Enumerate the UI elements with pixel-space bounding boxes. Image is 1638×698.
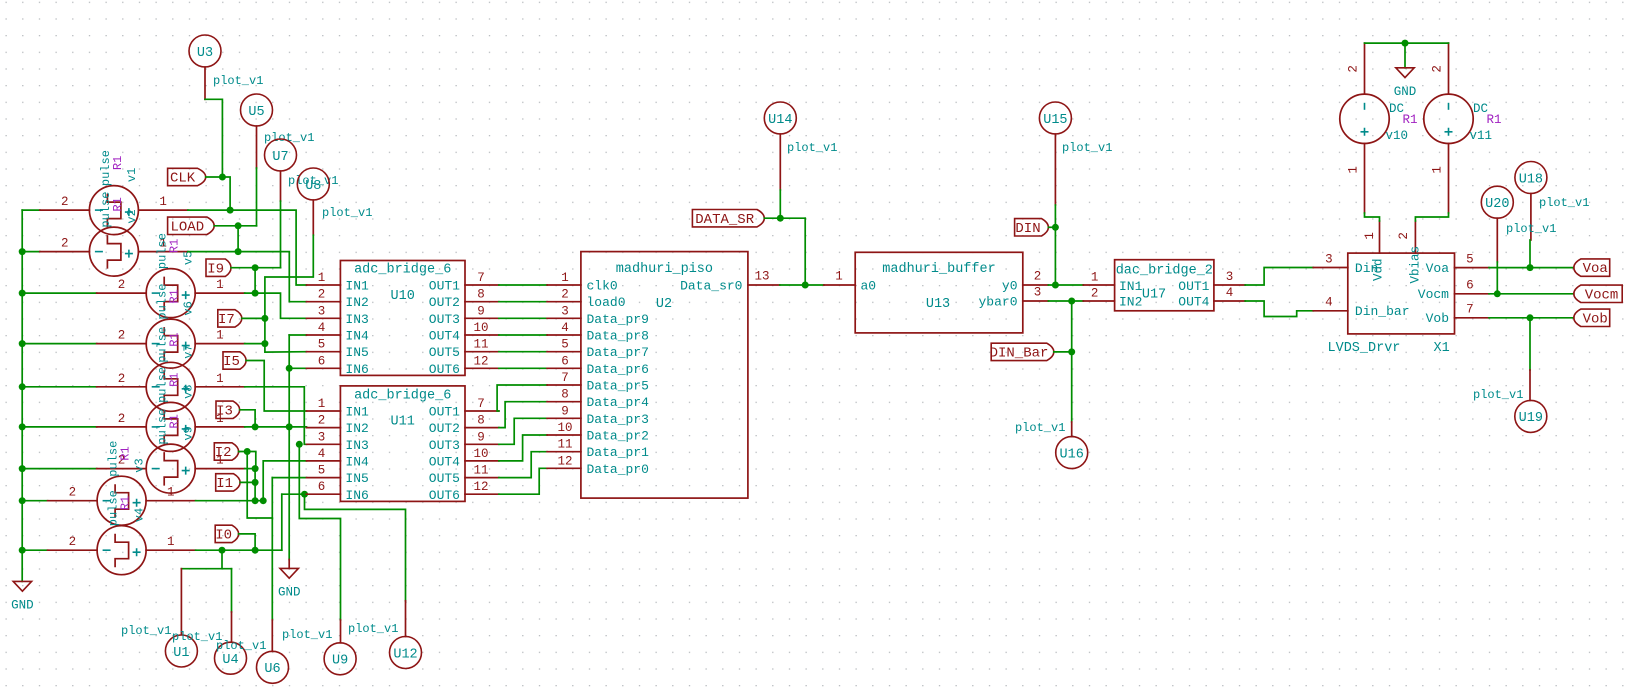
svg-text:v1: v1 (125, 168, 139, 182)
wire v11 bottom pin (1448, 144, 1450, 214)
svg-text:IN5: IN5 (345, 471, 368, 486)
pin 2 of v4 (48, 549, 98, 551)
wire U11 IN6 row (282, 493, 307, 495)
wire ybar0 to dac IN2 (1048, 300, 1083, 302)
svg-text:Data_pr2: Data_pr2 (587, 429, 649, 444)
wire U10 OUT to piso (499, 301, 547, 303)
pin IN5 of U11 (307, 477, 341, 479)
probe U14 (764, 102, 796, 134)
wire v10 bottom pin (1364, 144, 1366, 214)
svg-text:U10: U10 (391, 289, 415, 304)
pin OUT5 of U10 (465, 351, 499, 353)
pin OUT3 of U10 (465, 317, 499, 319)
pin 1 of v3 (146, 500, 196, 502)
svg-text:DIN_Bar: DIN_Bar (990, 346, 1049, 362)
dc source v10 (1340, 94, 1389, 143)
pin Vdd of X1 (1379, 221, 1381, 253)
wire U15 stub (1054, 134, 1056, 205)
svg-text:R1: R1 (111, 197, 125, 211)
wire ybar0 down to DIN_Bar (1071, 301, 1073, 352)
junction row v2 (235, 248, 242, 255)
pin Din_bar of X1 (1313, 310, 1348, 312)
wire U11 IN5 row (272, 477, 306, 479)
wire I3 branch (240, 410, 255, 427)
svg-text:IN1: IN1 (1119, 279, 1143, 294)
svg-text:U20: U20 (1485, 197, 1509, 212)
wire U12 feed (305, 494, 406, 601)
wire U11 OUT staircase (497, 385, 547, 411)
svg-text:6: 6 (318, 354, 326, 368)
pin Data_pr9 of U2 (547, 317, 581, 319)
junction row v4 (252, 497, 259, 504)
svg-text:2: 2 (118, 412, 126, 426)
pin 1 of v5 (195, 292, 245, 294)
junction I3 row v9 (252, 423, 259, 430)
svg-text:2: 2 (118, 278, 126, 292)
svg-text:1: 1 (159, 195, 167, 209)
wire row v6 (245, 343, 265, 345)
global label I0 (215, 525, 238, 542)
junction CLK (219, 174, 226, 181)
wire I1 row (240, 481, 255, 483)
svg-text:OUT6: OUT6 (429, 488, 460, 503)
junction I0 (252, 547, 259, 554)
svg-text:v9: v9 (182, 426, 196, 440)
svg-text:IN4: IN4 (345, 454, 369, 469)
svg-text:7: 7 (477, 397, 485, 411)
wire row v7 to U11 IN3 (245, 387, 307, 445)
junction DIN_Bar (1068, 348, 1075, 355)
svg-text:2: 2 (318, 414, 326, 428)
svg-text:OUT4: OUT4 (429, 454, 460, 469)
svg-text:v7: v7 (182, 344, 196, 358)
pin IN3 of U10 (307, 317, 341, 319)
svg-text:12: 12 (473, 480, 488, 494)
svg-text:3: 3 (318, 430, 326, 444)
wire to U16 (1071, 352, 1073, 422)
junction Data_sr0 (802, 282, 809, 289)
pin Vocm of X1 (1455, 293, 1490, 295)
pin 2 of v9 (97, 468, 147, 470)
wire U18 stub (1530, 194, 1532, 241)
pin 1 of v2 (138, 251, 188, 253)
pulse source v2 (89, 227, 138, 276)
wire U7 to I9 row (280, 171, 282, 201)
svg-text:Data_pr9: Data_pr9 (587, 312, 649, 327)
pin OUT5 of U11 (465, 477, 499, 479)
probe U1 (165, 635, 197, 667)
svg-text:1: 1 (1347, 166, 1361, 174)
svg-text:adc_bridge_6: adc_bridge_6 (354, 389, 451, 404)
svg-text:R1: R1 (168, 239, 182, 253)
wire U10 OUT to piso (499, 284, 547, 286)
svg-text:I1: I1 (216, 476, 233, 492)
svg-text:5: 5 (318, 464, 326, 478)
svg-text:Data_pr7: Data_pr7 (587, 345, 649, 360)
pulse source v8 (146, 402, 195, 451)
wire row v2 to U10 IN2 (188, 252, 307, 302)
svg-text:v8: v8 (182, 384, 196, 398)
junction v4 IN4 feed (260, 497, 267, 504)
svg-text:11: 11 (473, 464, 488, 478)
svg-text:R1: R1 (168, 289, 182, 303)
svg-text:IN3: IN3 (345, 312, 368, 327)
junction U14 (777, 215, 784, 222)
adc_bridge_6 U10 (340, 261, 465, 376)
svg-text:U9: U9 (332, 654, 348, 669)
svg-text:OUT5: OUT5 (429, 345, 460, 360)
wire top rail (1365, 42, 1449, 44)
svg-text:8: 8 (477, 414, 485, 428)
svg-text:plot_v1: plot_v1 (213, 74, 263, 88)
svg-text:U1: U1 (173, 646, 189, 661)
junction I2 (244, 448, 251, 455)
pin 1 of v6 (195, 343, 245, 345)
global label I2 (214, 443, 238, 460)
junction IN6 U12 feed (301, 491, 308, 498)
wire U1 stub (180, 569, 182, 635)
wire U10 OUT to piso (499, 351, 547, 353)
svg-text:IN6: IN6 (345, 488, 368, 503)
wire I7 row (242, 317, 265, 319)
wire U14 stub (779, 134, 781, 190)
svg-text:4: 4 (318, 321, 326, 335)
wire U5 to LOAD (256, 126, 258, 168)
pin OUT4 of U10 (465, 334, 499, 336)
pulse source v5 (146, 269, 195, 318)
global label I7 (218, 310, 242, 327)
pulse source v1 (89, 186, 138, 235)
probe U9 (324, 643, 356, 675)
pin Data_pr2 of U2 (547, 434, 581, 436)
svg-text:5: 5 (318, 338, 326, 352)
junction GND rail (1402, 40, 1409, 47)
svg-text:11: 11 (557, 438, 572, 452)
junction row v3 (252, 465, 259, 472)
svg-text:OUT1: OUT1 (429, 279, 460, 294)
pin Vbias of X1 (1414, 221, 1416, 253)
junction y0 (1052, 282, 1059, 289)
svg-text:Data_pr4: Data_pr4 (587, 395, 650, 410)
svg-text:R1: R1 (119, 496, 133, 510)
pulse source v7 (146, 362, 195, 411)
svg-text:Data_pr0: Data_pr0 (587, 462, 649, 477)
svg-text:Data_pr5: Data_pr5 (587, 379, 649, 394)
svg-text:3: 3 (561, 304, 569, 318)
pin 1 of v7 (195, 386, 245, 388)
svg-text:R1: R1 (168, 332, 182, 346)
svg-text:1: 1 (1363, 232, 1377, 240)
pin a0 of U13 (824, 284, 855, 286)
svg-text:CLK: CLK (170, 171, 196, 187)
wire row v1 to U10 IN1 (188, 210, 307, 285)
svg-text:IN2: IN2 (345, 421, 368, 436)
svg-text:1: 1 (216, 329, 224, 343)
svg-text:6: 6 (318, 480, 326, 494)
svg-text:I3: I3 (216, 403, 233, 419)
pin Data_sr0 of U2 (748, 284, 780, 286)
svg-text:IN5: IN5 (345, 345, 368, 360)
svg-text:9: 9 (477, 304, 485, 318)
svg-text:R1: R1 (1403, 113, 1418, 127)
svg-text:U2: U2 (656, 297, 672, 312)
junction IN6 U10 (286, 365, 293, 372)
svg-text:1: 1 (561, 271, 569, 285)
wire U11 OUT staircase (499, 468, 547, 494)
wire CLK junction to row v1 (206, 177, 230, 210)
junction ybar0 (1068, 298, 1075, 305)
svg-text:IN3: IN3 (345, 438, 368, 453)
svg-text:v2: v2 (125, 209, 139, 223)
pin OUT4 of U17 (1214, 300, 1245, 302)
wire row v4 to U11 IN4 (196, 500, 264, 502)
pin Data_pr6 of U2 (547, 367, 581, 369)
svg-text:OUT5: OUT5 (429, 471, 460, 486)
wire y0 to dac IN1 (1048, 284, 1083, 286)
svg-text:1: 1 (835, 270, 843, 284)
junction U1 U4 tap (219, 547, 226, 554)
svg-text:R1: R1 (168, 372, 182, 386)
svg-text:OUT1: OUT1 (1178, 279, 1209, 294)
svg-text:plot_v1: plot_v1 (216, 639, 266, 653)
wire (22, 468, 97, 470)
pin OUT6 of U11 (465, 493, 499, 495)
pin Data_pr7 of U2 (547, 351, 581, 353)
svg-text:8: 8 (477, 288, 485, 302)
probe U20 (1481, 186, 1513, 218)
probe U12 (390, 637, 422, 669)
svg-text:U13: U13 (926, 297, 950, 312)
svg-text:OUT3: OUT3 (429, 438, 460, 453)
svg-text:6: 6 (561, 354, 569, 368)
pin Vob of X1 (1455, 317, 1490, 319)
pin Data_pr5 of U2 (547, 384, 581, 386)
svg-text:IN4: IN4 (345, 329, 369, 344)
svg-text:2: 2 (1347, 65, 1361, 73)
pin OUT1 of U17 (1214, 284, 1245, 286)
wire U10 OUT to piso (499, 334, 547, 336)
svg-text:2: 2 (69, 535, 77, 549)
svg-text:plot_v1: plot_v1 (1473, 388, 1523, 402)
pin IN4 of U11 (307, 460, 341, 462)
wire U10 OUT to piso (499, 317, 547, 319)
svg-text:2: 2 (318, 288, 326, 302)
svg-text:OUT2: OUT2 (429, 421, 460, 436)
probe U4 (215, 642, 247, 674)
svg-text:10: 10 (473, 447, 488, 461)
wire left bus (21, 210, 23, 581)
svg-text:Data_pr3: Data_pr3 (587, 412, 649, 427)
pin 2 of v6 (97, 343, 147, 345)
wire DATA_SR (764, 217, 805, 219)
svg-text:plot_v1: plot_v1 (1062, 141, 1112, 155)
wire v11 top pin (1448, 43, 1450, 94)
madhuri_buffer U13 (855, 252, 1023, 333)
pin 1 of v4 (146, 549, 196, 551)
svg-text:plot_v1: plot_v1 (348, 622, 398, 636)
svg-text:plot_v1: plot_v1 (121, 624, 171, 638)
svg-text:Vdd: Vdd (1372, 258, 1386, 281)
svg-text:Data_pr1: Data_pr1 (587, 445, 650, 460)
ground middle (280, 568, 298, 578)
svg-text:OUT3: OUT3 (429, 312, 460, 327)
svg-text:I5: I5 (223, 354, 240, 370)
svg-text:1: 1 (318, 271, 326, 285)
svg-text:6: 6 (1466, 279, 1474, 293)
pin IN2 of U10 (307, 301, 341, 303)
wire (22, 426, 97, 428)
svg-text:4: 4 (561, 321, 569, 335)
svg-text:IN1: IN1 (345, 405, 369, 420)
global label I3 (216, 401, 240, 418)
pulse source v9 (146, 444, 195, 493)
svg-text:OUT4: OUT4 (429, 329, 460, 344)
pin Data_pr1 of U2 (547, 451, 581, 453)
svg-text:1: 1 (167, 535, 175, 549)
svg-text:a0: a0 (861, 279, 877, 294)
svg-text:I0: I0 (215, 528, 232, 544)
junction DIN (1052, 224, 1059, 231)
svg-text:2: 2 (1034, 270, 1042, 284)
svg-text:LOAD: LOAD (170, 219, 204, 235)
pin Data_pr4 of U2 (547, 401, 581, 403)
wire v10 top pin (1364, 43, 1366, 94)
svg-text:madhuri_piso: madhuri_piso (616, 262, 713, 277)
global label I5 (223, 352, 246, 369)
junction U19 (1527, 314, 1534, 321)
svg-text:ybar0: ybar0 (978, 295, 1017, 310)
wire U20 stub (1496, 218, 1498, 262)
pin 2 of v2 (40, 251, 90, 253)
wire I2 branch down (247, 452, 272, 519)
svg-text:IN6: IN6 (345, 362, 368, 377)
wire row v9 to U11 IN2 (245, 426, 307, 428)
svg-text:3: 3 (1226, 270, 1234, 284)
wire row v3 (245, 468, 256, 470)
pin IN5 of U10 (307, 351, 341, 353)
global label I1 (216, 474, 240, 491)
junction row v9 (286, 423, 293, 430)
svg-text:3: 3 (318, 304, 326, 318)
svg-text:1: 1 (1091, 271, 1099, 285)
wire IN6 drop to row v8 (281, 494, 283, 550)
pin OUT2 of U11 (465, 427, 499, 429)
svg-text:GND: GND (278, 585, 301, 599)
global label Vocm (1574, 285, 1622, 302)
wire U11 OUT staircase (499, 418, 547, 444)
global label CLK (168, 168, 206, 185)
wire (22, 251, 40, 253)
pin 2 of v3 (48, 500, 98, 502)
pin OUT3 of U11 (465, 443, 499, 445)
svg-text:clk0: clk0 (587, 279, 618, 294)
svg-text:plot_v1: plot_v1 (264, 131, 314, 145)
dac_bridge_2 U17 (1115, 260, 1214, 311)
svg-text:v10: v10 (1386, 129, 1409, 143)
wire U8 down (312, 200, 314, 235)
svg-text:plot_v1: plot_v1 (172, 630, 222, 644)
svg-text:OUT4: OUT4 (1178, 295, 1209, 310)
junction U18 (1527, 264, 1534, 271)
wire U1 U4 branch (221, 550, 223, 569)
wire Vob (1489, 317, 1574, 319)
dc source v11 (1424, 94, 1473, 143)
svg-text:R1: R1 (1487, 113, 1502, 127)
wire I9 row (231, 267, 281, 269)
svg-text:v6: v6 (182, 301, 196, 315)
pin IN2 of U17 (1083, 300, 1114, 302)
probe U5 (241, 94, 273, 126)
wire I0 branch (239, 534, 256, 550)
wire I9 branch to row v5 (254, 268, 256, 293)
pin IN2 of U11 (307, 427, 341, 429)
pin OUT4 of U11 (465, 460, 499, 462)
svg-text:R1: R1 (111, 156, 125, 170)
pin 1 of v9 (195, 468, 245, 470)
ground left (13, 581, 31, 591)
wire OUT4 to Din_bar (1245, 301, 1313, 317)
svg-text:2: 2 (69, 486, 77, 500)
pin 1 of v1 (138, 209, 188, 211)
wire row v8 (196, 549, 282, 551)
ground top right (1396, 68, 1414, 78)
pin IN3 of U11 (307, 443, 341, 445)
pin OUT2 of U10 (465, 301, 499, 303)
svg-text:dac_bridge_2: dac_bridge_2 (1116, 264, 1213, 279)
svg-text:U15: U15 (1043, 113, 1067, 128)
wire v3-v4 link (254, 469, 256, 501)
svg-text:LVDS_Drvr: LVDS_Drvr (1328, 341, 1401, 356)
svg-text:I2: I2 (215, 445, 232, 461)
wire DATA_SR to a0 (804, 218, 806, 285)
global label Voa (1574, 259, 1610, 276)
pin Data_pr3 of U2 (547, 417, 581, 419)
svg-text:1: 1 (1431, 166, 1445, 174)
svg-text:X1: X1 (1434, 341, 1450, 356)
svg-text:DATA_SR: DATA_SR (695, 212, 754, 228)
svg-text:U18: U18 (1519, 172, 1543, 187)
svg-text:DIN: DIN (1015, 221, 1040, 237)
svg-text:R1: R1 (119, 446, 133, 460)
svg-text:GND: GND (1394, 85, 1417, 99)
pulse source v4 (97, 526, 146, 575)
svg-text:2: 2 (61, 195, 69, 209)
wire (22, 500, 47, 502)
pin OUT1 of U10 (465, 284, 499, 286)
svg-text:R1: R1 (168, 414, 182, 428)
probe U7 (265, 139, 297, 171)
probe U16 (1056, 437, 1088, 469)
wire GND net vertical (288, 335, 290, 560)
LVDS_Drvr X1 (1348, 253, 1455, 334)
pin clk0 of U2 (547, 284, 581, 286)
wire (22, 549, 47, 551)
pin IN1 of U17 (1083, 284, 1114, 286)
global label LOAD (168, 217, 215, 234)
svg-text:IN2: IN2 (1119, 295, 1142, 310)
svg-text:2: 2 (1397, 232, 1411, 240)
global label I9 (206, 259, 231, 276)
junction LOAD (235, 222, 242, 229)
wire U11 OUT staircase (499, 435, 547, 461)
svg-text:U4: U4 (222, 653, 238, 668)
wire U10 OUT to piso (499, 367, 547, 369)
svg-text:GND: GND (11, 598, 34, 612)
pin Data_pr8 of U2 (547, 334, 581, 336)
svg-text:3: 3 (1325, 253, 1333, 267)
svg-text:I7: I7 (218, 312, 235, 328)
pin IN6 of U10 (307, 367, 341, 369)
